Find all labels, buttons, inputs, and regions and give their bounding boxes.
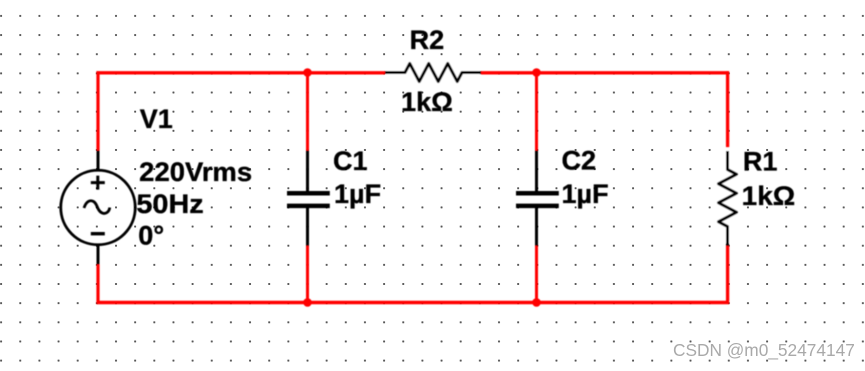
svg-text:CSDN @m0_52474147: CSDN @m0_52474147 — [673, 340, 855, 360]
wire C2 branch upper — [535, 71, 538, 151]
junction bottom C2 node — [532, 298, 541, 307]
wire R1 branch lower — [726, 246, 729, 305]
wire C2 branch lower — [535, 246, 538, 303]
svg-text:R1: R1 — [743, 147, 778, 177]
wire top-right segment — [481, 71, 729, 74]
svg-text:C2: C2 — [562, 146, 597, 176]
resistor R1 symbol background — [717, 148, 739, 244]
junction top C1 node — [303, 68, 312, 77]
svg-text:1µF: 1µF — [334, 179, 381, 209]
wire C1 branch lower — [306, 246, 309, 303]
svg-text:220Vrms: 220Vrms — [139, 157, 252, 187]
svg-text:1kΩ: 1kΩ — [401, 87, 453, 117]
svg-text:1kΩ: 1kΩ — [742, 181, 796, 211]
voltage source V1 symbol — [61, 151, 136, 265]
resistor R2 symbol — [385, 64, 481, 82]
wire C1 branch upper — [306, 71, 309, 151]
wire left vertical upper — [96, 71, 99, 150]
svg-text:C1: C1 — [333, 146, 368, 176]
capacitor C1 symbol — [287, 151, 330, 246]
wire bottom segment — [96, 301, 729, 305]
junction bottom C1 node — [303, 298, 312, 307]
wire R1 branch upper — [726, 71, 729, 151]
resistor R2 symbol background — [386, 62, 480, 85]
svg-text:50Hz: 50Hz — [136, 189, 203, 219]
capacitor C2 symbol — [516, 151, 559, 246]
junction top C2 node — [532, 68, 541, 77]
wire left vertical lower — [96, 265, 99, 305]
wire top-left segment — [96, 71, 385, 74]
resistor R1 symbol — [719, 151, 737, 246]
svg-text:1µF: 1µF — [562, 179, 609, 209]
svg-text:V1: V1 — [140, 104, 173, 134]
svg-text:R2: R2 — [410, 25, 445, 55]
svg-text:0°: 0° — [138, 221, 164, 251]
